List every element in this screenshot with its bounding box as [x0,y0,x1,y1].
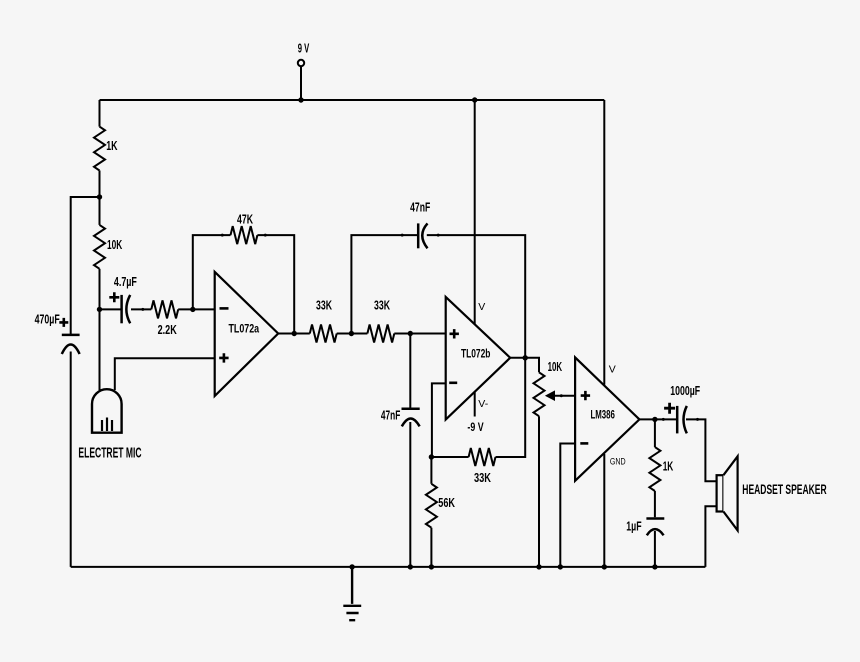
wire U3 output [639,418,676,420]
svg-text:V: V [478,301,485,313]
svg-text:10K: 10K [548,359,563,374]
resistor R 33K (first) [310,325,337,343]
svg-text:56K: 56K [438,495,455,510]
9V supply terminal [298,60,304,66]
op-amp U1 TL072a body [215,272,279,396]
resistor R 1K [94,127,105,171]
pot wiper arrowhead [546,391,555,400]
capacitor C 1uF plate [646,517,664,520]
wire 56K top lead [430,457,432,484]
tick at 47K left lead [221,234,224,237]
wire ground rail [71,566,706,568]
capacitor C 470uF plate - (curved) [62,345,80,355]
svg-text:V: V [609,364,616,376]
wire 1K top lead [99,100,101,127]
svg-text:33K: 33K [474,470,491,485]
pot wiper wire [553,395,575,397]
svg-text:47nF: 47nF [381,408,400,423]
polarity + of 4.7uF [109,292,119,302]
node 47nF shunt at rail [408,564,413,569]
resistor R 10K [94,225,105,269]
svg-text:47K: 47K [237,212,253,227]
node 47nF shunt tap [408,331,413,336]
resistor R 33K (U2 feedback) [469,448,496,466]
wire U1 non-inverting input to mic [115,358,215,390]
wire 470uF to ground rail [70,352,72,567]
wire 1K to 1uF [654,491,656,517]
wire 1uF to ground rail [654,531,656,567]
svg-text:1K: 1K [663,458,674,473]
wire branch to 470uF [71,197,100,334]
polarity + of 1000uF [664,403,675,414]
wire feedback up from node [193,235,231,309]
tick at 1000uF right lead [696,418,699,421]
capacitor C 47nF (series) plate [417,223,420,248]
wire 47K to U1 output [257,235,294,333]
wire 9V rail to U2 V+ pin [474,100,476,324]
tick at 47nF right lead [437,234,440,237]
node 56K at rail [429,564,434,569]
svg-text:4.7µF: 4.7µF [114,274,137,289]
tick at 47nF left lead [401,234,404,237]
tick at 47K right lead [264,234,267,237]
wire tap down to 47nF shunt [409,334,411,408]
wire input node to mic [99,309,101,390]
wire 33K fb left lead [431,456,468,458]
ground symbol [343,567,361,620]
node U3 inverting at rail [558,564,563,569]
node U1 inverting input / feedback [190,307,195,312]
wire 47nF to U2 output branch [427,235,525,358]
svg-text:ELECTRET MIC: ELECTRET MIC [78,444,141,461]
U1 minus sign [220,307,229,310]
tick on wiper wire [560,394,563,397]
capacitor C 1uF curved plate [647,529,664,535]
wire 33K to U2 non-inverting input [394,333,445,335]
wire 1K to 10K [99,171,101,225]
capacitor C 1000uF curved plate [684,406,687,434]
U1 plus sign [219,353,228,362]
wire 2.2K to U1 inverting input [178,308,215,310]
wire 56K to ground rail [430,528,432,567]
capacitor C 4.7uF plate - (curved) [126,295,130,323]
node top rail / 9V junction [298,97,303,102]
svg-text:TL072a: TL072a [228,322,259,336]
node 47nF tap [349,331,354,336]
capacitor C 1000uF plate + [676,406,679,434]
wire top rail [100,99,605,101]
wire pot bottom to ground rail [538,416,540,567]
resistor R 47K feedback [231,226,258,244]
wire 10K to input node [99,269,101,310]
node U3 GND at rail [602,564,607,569]
wire 9V rail down to U3 V+ pin [603,100,605,385]
svg-text:1µF: 1µF [626,519,641,534]
capacitor C 470uF plate + [62,334,80,337]
electret mic electrode ticks [102,418,112,432]
headset speaker cone [723,456,737,530]
svg-text:33K: 33K [374,298,390,313]
node top rail / TL072b V+ junction [472,97,477,102]
node U2 output [523,355,528,360]
U3 GND pin wire [603,454,605,567]
wire U3 output to 1K [654,419,656,447]
resistor R 2.2K [151,300,178,318]
node 33K/56K junction [429,454,434,459]
wire tap up to 47nF [351,235,417,333]
polarity + of 470uF [59,318,68,327]
wire input node to 4.7uF [100,308,121,310]
wire U2 inverting input down [432,383,446,457]
svg-text:47nF: 47nF [410,199,430,214]
svg-text:9 V: 9 V [298,40,310,55]
svg-text:33K: 33K [316,298,332,313]
wire 1000uF to speaker [686,419,717,481]
node U1 output [292,331,297,336]
potentiometer R 10K [534,372,545,416]
resistor R 1K output [649,447,660,491]
node 1K/10K junction [97,194,102,199]
node 1uF at rail [652,564,657,569]
op-amp U2 TL072b body [446,297,511,420]
U2 V- pin [474,392,476,417]
svg-text:1000µF: 1000µF [670,383,700,398]
wire U2 output to pot [510,358,539,373]
node ground symbol junction [349,564,354,569]
capacitor C 47nF (shunt) curved plate [402,418,420,426]
svg-text:2.2K: 2.2K [158,322,178,337]
capacitor C 47nF (series) curved plate [422,223,427,248]
U3 minus sign [580,442,588,445]
wire speaker return to ground rail [705,506,716,567]
wire U3 inverting input to ground rail [560,444,575,567]
wire between 33K resistors [337,333,368,335]
svg-text:HEADSET SPEAKER: HEADSET SPEAKER [742,482,826,497]
capacitor C 4.7uF plate + [120,295,123,323]
svg-text:1K: 1K [106,138,118,153]
electret mic body [92,389,122,433]
svg-text:V-: V- [478,398,488,410]
wire 4.7uF to 2.2K [131,308,151,310]
svg-text:TL072b: TL072b [461,346,491,360]
node input (mic bias) [97,307,102,312]
resistor R 33K (second) [367,325,394,343]
node U3 output [652,417,657,422]
wire U1 output [278,333,310,335]
svg-text:10K: 10K [107,237,123,252]
U3 plus sign [581,391,590,400]
resistor R 56K [426,484,437,528]
svg-text:LM386: LM386 [590,408,615,422]
svg-text:470µF: 470µF [35,312,60,327]
capacitor C 47nF (shunt) plate [402,407,420,410]
U2 plus sign [450,329,459,338]
wire 47nF shunt to ground rail [409,422,411,567]
U2 minus sign [449,381,457,384]
headset speaker driver [717,475,724,511]
tick at 2.2K input lead [141,308,144,311]
node pot at rail [536,564,541,569]
svg-text:-9 V: -9 V [467,420,483,434]
tick at 1000uF left lead [662,418,665,421]
wire 33K fb to output branch [496,358,526,457]
svg-text:GND: GND [610,457,626,467]
op-amp U3 LM386 body [575,357,639,480]
